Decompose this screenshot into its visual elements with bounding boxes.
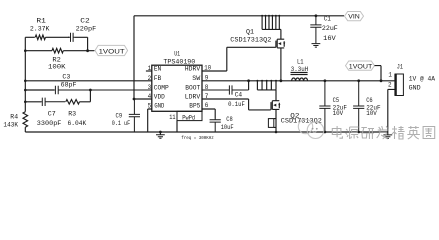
svg-text:1: 1 xyxy=(388,72,392,79)
svg-text:1: 1 xyxy=(148,65,152,72)
wire SW rail xyxy=(202,80,395,82)
svg-text:HDRV: HDRV xyxy=(185,65,201,72)
svg-text:5: 5 xyxy=(148,102,152,109)
svg-text:PwPd: PwPd xyxy=(182,115,195,122)
svg-text:C7: C7 xyxy=(48,110,56,118)
wire FB node vertical xyxy=(24,37,26,111)
wire BP5 to C8 xyxy=(202,109,215,119)
node Q1 source junction xyxy=(280,79,283,82)
inductor L1 xyxy=(292,78,308,81)
node 1VOUT junction xyxy=(380,79,383,82)
wire VDD to VIN rail vertical xyxy=(134,16,152,99)
svg-text:3.3uH: 3.3uH xyxy=(291,66,308,74)
wire C7-R3 branch left xyxy=(25,101,41,103)
svg-text:3: 3 xyxy=(148,84,152,91)
svg-text:1V @ 4A: 1V @ 4A xyxy=(409,76,436,83)
svg-text:0.1uF: 0.1uF xyxy=(228,101,245,109)
wire COMP branch with C3 xyxy=(25,89,54,91)
svg-text:10uF: 10uF xyxy=(221,124,234,132)
svg-text:2: 2 xyxy=(148,75,152,82)
svg-text:1VOUT: 1VOUT xyxy=(349,63,373,70)
capacitor C2 xyxy=(68,33,74,42)
svg-text:220pF: 220pF xyxy=(76,26,97,34)
svg-text:C1: C1 xyxy=(324,16,331,24)
svg-text:C4: C4 xyxy=(235,91,243,99)
transistor Q2 xyxy=(271,101,279,110)
wire Q1 drain comb stubs xyxy=(262,16,279,30)
node feedforward junction xyxy=(86,49,89,52)
svg-text:GND: GND xyxy=(409,85,421,92)
svg-text:SW: SW xyxy=(192,75,200,82)
node VDD junction xyxy=(133,98,136,101)
wire C2 to corner xyxy=(74,37,87,50)
svg-text:BP5: BP5 xyxy=(189,103,200,110)
wire R3 to COMP junction xyxy=(80,90,91,102)
resistor R4 xyxy=(23,112,28,128)
node COMP branch junction xyxy=(89,89,92,92)
wire Q2 drain xyxy=(275,90,277,101)
svg-text:2.37K: 2.37K xyxy=(30,26,50,34)
svg-text:C6: C6 xyxy=(366,97,373,104)
capacitor C9 xyxy=(129,99,140,132)
svg-text:U1: U1 xyxy=(174,50,180,58)
svg-text:22uF: 22uF xyxy=(322,25,338,33)
svg-text:16V: 16V xyxy=(323,35,337,43)
svg-text:2: 2 xyxy=(388,81,392,88)
node Q2 source junction xyxy=(275,131,278,134)
pin 1 EN stub xyxy=(146,70,152,72)
svg-text:R1: R1 xyxy=(36,17,46,25)
wire FB pin wire xyxy=(25,80,152,82)
wire bottom ground rail xyxy=(25,131,388,133)
svg-text:100K: 100K xyxy=(48,64,66,72)
wire LDRV to Q2 gate xyxy=(202,99,271,110)
svg-text:C3: C3 xyxy=(62,73,70,81)
wire VIN rail xyxy=(134,15,344,17)
svg-text:freq = 300KHz: freq = 300KHz xyxy=(181,135,214,141)
node BOOT-SW junction xyxy=(247,79,250,82)
svg-text:1VOUT: 1VOUT xyxy=(99,49,125,56)
ic U1 box xyxy=(152,65,202,111)
svg-text:6.04K: 6.04K xyxy=(68,120,88,128)
capacitor C8 xyxy=(210,119,221,133)
transistor Q1 xyxy=(276,39,284,48)
svg-text:10V: 10V xyxy=(366,110,377,117)
svg-text:COMP: COMP xyxy=(154,84,169,91)
wire HDRV to Q1 gate xyxy=(202,47,276,71)
ic U1 PwPd pad box xyxy=(177,111,202,120)
svg-text:R4: R4 xyxy=(10,114,18,122)
capacitor C3 xyxy=(54,86,152,94)
net flag 1VOUT right xyxy=(346,61,375,70)
wire BOOT with C4 xyxy=(202,85,249,94)
svg-text:11: 11 xyxy=(169,114,176,121)
svg-text:VIN: VIN xyxy=(348,14,360,21)
svg-text:143K: 143K xyxy=(3,121,19,129)
watermark logo circles xyxy=(298,119,324,138)
svg-text:BOOT: BOOT xyxy=(185,84,200,91)
svg-text:R3: R3 xyxy=(68,110,76,118)
wire R2 branch left xyxy=(25,50,52,52)
wire J1 pin2 xyxy=(388,89,395,132)
svg-text:C8: C8 xyxy=(226,116,233,124)
wire R4 to ground rail xyxy=(24,127,26,132)
ground symbol J1 xyxy=(387,132,389,135)
svg-text:CSD17313Q2: CSD17313Q2 xyxy=(230,37,271,45)
capacitor C5 xyxy=(324,79,327,82)
svg-text:EN: EN xyxy=(154,65,162,72)
svg-text:68pF: 68pF xyxy=(61,81,77,89)
node FB junction dots xyxy=(24,49,27,52)
wire Q1 comb bar xyxy=(262,28,281,30)
node Q2 comb dots xyxy=(256,80,258,82)
wire Q1 drain xyxy=(280,29,282,39)
wire R1 to C2 xyxy=(46,36,70,38)
ground symbol U1 xyxy=(159,131,162,134)
net flag VIN xyxy=(345,12,364,21)
watermark text 电源研发精英圈 xyxy=(332,126,342,138)
connector J1 box xyxy=(395,74,403,96)
resistor R2 xyxy=(52,48,63,53)
svg-text:C2: C2 xyxy=(80,17,90,25)
wire Q1 source to SW xyxy=(280,48,282,81)
svg-text:FB: FB xyxy=(154,75,162,82)
wire Q2 source to rail xyxy=(275,109,277,132)
capacitor C1 xyxy=(310,16,321,44)
svg-text:0.1 uF: 0.1 uF xyxy=(112,120,131,128)
wire BOOT up to SW xyxy=(248,81,250,90)
node Q1 comb dots xyxy=(261,15,263,17)
ground symbol C1 xyxy=(312,44,321,48)
node C1 junction xyxy=(315,14,318,17)
svg-text:Q1: Q1 xyxy=(246,29,254,37)
resistor R1 xyxy=(35,35,45,40)
svg-text:J1: J1 xyxy=(397,64,403,72)
wire Q2 comb bar xyxy=(257,89,276,91)
svg-text:GND: GND xyxy=(154,103,164,110)
svg-text:VDD: VDD xyxy=(154,93,165,100)
svg-text:10V: 10V xyxy=(333,110,344,117)
svg-text:C5: C5 xyxy=(333,97,340,104)
pin 11 wire to ground rail xyxy=(176,121,178,132)
svg-text:LDRV: LDRV xyxy=(185,93,201,100)
capacitor C7 xyxy=(41,98,65,106)
wire top feedforward branch left xyxy=(25,36,35,38)
wire R2 to 1VOUT flag xyxy=(63,50,94,52)
wire GND pin to rail xyxy=(148,109,152,132)
svg-text:6: 6 xyxy=(205,102,209,109)
resistor R3 xyxy=(66,100,80,105)
net flag 1VOUT left xyxy=(95,45,128,55)
capacitor C6 xyxy=(357,79,360,82)
wire Q2 source pad rect xyxy=(268,119,273,128)
svg-text:3300pF: 3300pF xyxy=(37,120,62,128)
wire Q2 drain comb stubs xyxy=(257,81,276,90)
